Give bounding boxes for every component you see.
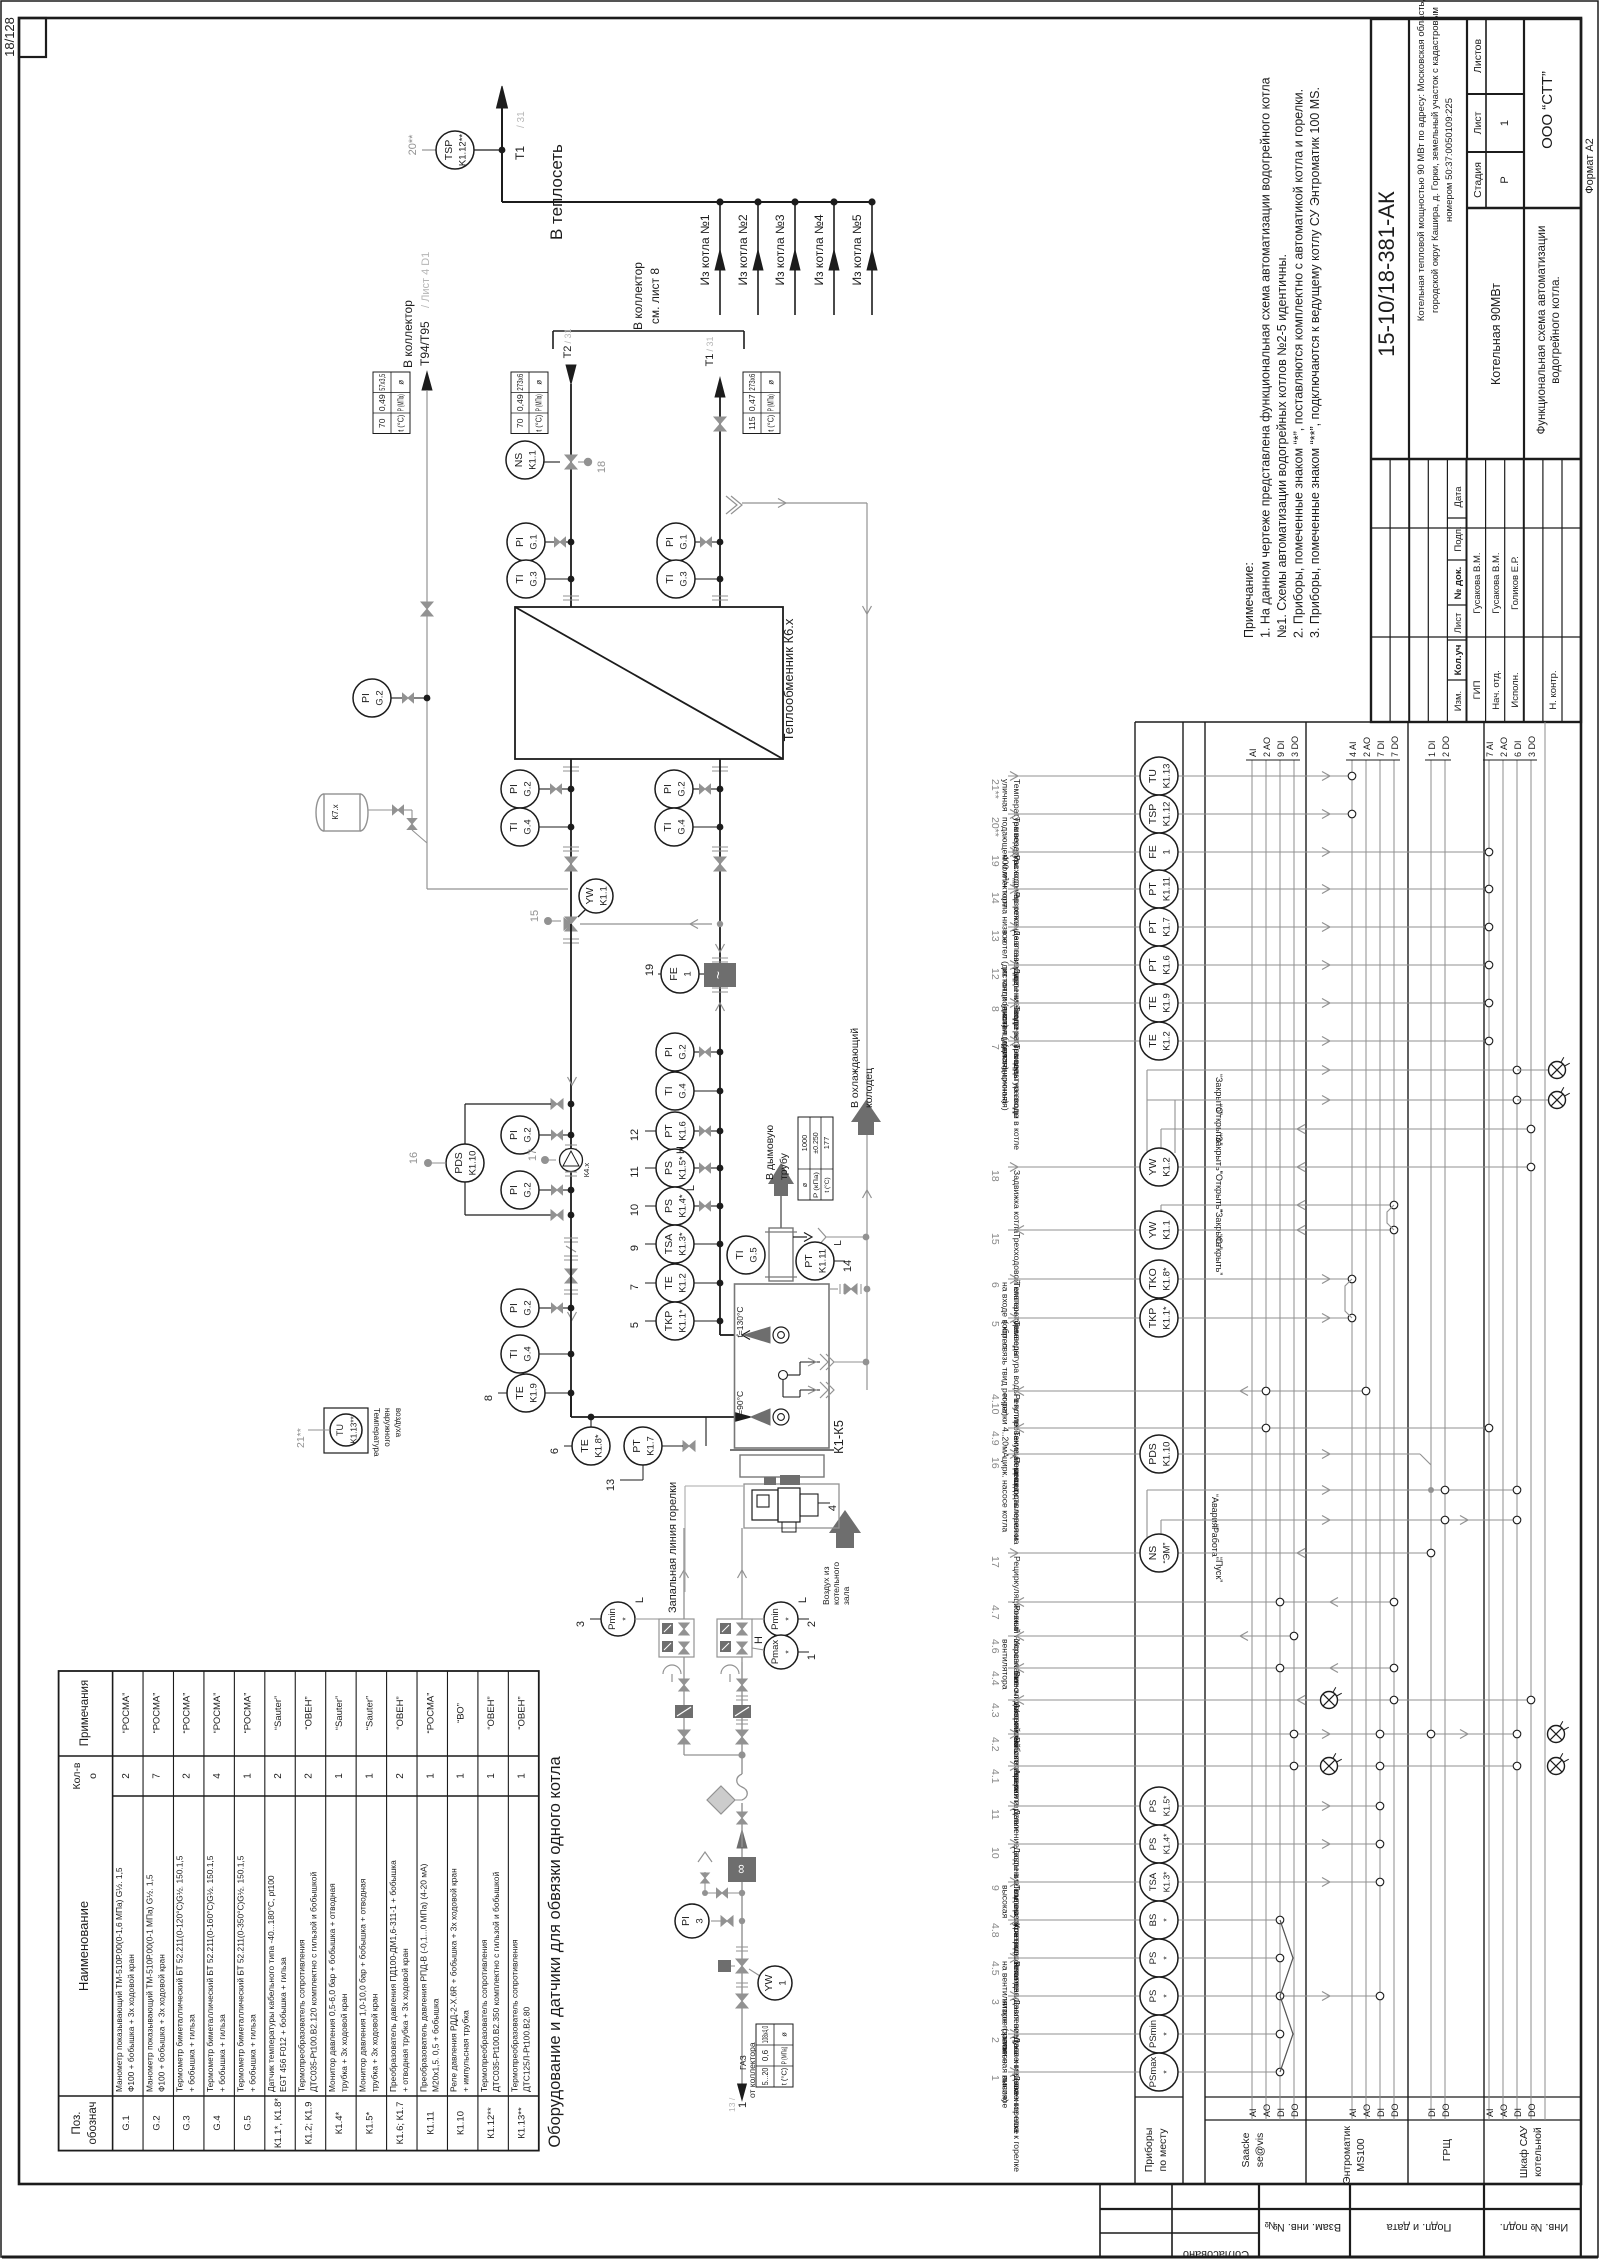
- svg-text:3. Приборы, помеченные знаком: 3. Приборы, помеченные знаком “**”, подк…: [1308, 87, 1322, 638]
- svg-text:горелки 4..20мА: горелки 4..20мА: [1001, 1394, 1011, 1458]
- svg-text:∞: ∞: [733, 1864, 748, 1873]
- svg-text:PT: PT: [1147, 958, 1159, 972]
- svg-text:Температура: Температура: [372, 1408, 381, 1457]
- svg-text:“ЭМ”: “ЭМ”: [1162, 1542, 1173, 1563]
- valve on T1 pipe: [714, 417, 726, 431]
- svg-text:Т2: Т2: [562, 346, 574, 359]
- svg-text:ДТС125Л-Рt100.В2.80: ДТС125Л-Рt100.В2.80: [522, 2006, 532, 2092]
- svg-text:t (°C): t (°C): [780, 2067, 789, 2085]
- svg-text:K1.1*: K1.1*: [678, 1309, 689, 1333]
- svg-text:AI: AI: [1248, 2108, 1258, 2117]
- svg-text:TE: TE: [514, 1386, 526, 1399]
- burner scope boundary: [685, 1486, 743, 1592]
- band signal 21**: [989, 757, 1356, 865]
- title block outer: [1371, 19, 1581, 722]
- sensor TU K1.13** outdoor temperature: [295, 1408, 403, 1457]
- band structure lines: [1135, 722, 1581, 2184]
- svg-text:вентилятора: вентилятора: [1001, 1639, 1011, 1690]
- svg-text:K1.13: K1.13: [1162, 764, 1173, 789]
- svg-text:Взам. инв. №: Взам. инв. №: [1273, 2221, 1341, 2233]
- svg-text:L: L: [634, 1597, 646, 1603]
- instrument PS K1.4* on boiler outlet: [629, 1187, 723, 1225]
- band signal 8: [989, 984, 1493, 1118]
- svg-text:ø: ø: [780, 2032, 789, 2037]
- svg-text:2: 2: [989, 2037, 1001, 2043]
- svg-text:К1.11: К1.11: [425, 2111, 436, 2134]
- boiler outlet pipe: [720, 1331, 750, 1340]
- svg-text:К1.1*, К1.8*: К1.1*, К1.8*: [273, 2098, 284, 2148]
- svg-text:10: 10: [629, 1204, 641, 1216]
- svg-text:K1.11: K1.11: [818, 1249, 829, 1273]
- svg-text:9 DI: 9 DI: [1276, 740, 1286, 757]
- svg-text:“РОСМА”: “РОСМА”: [425, 1693, 436, 1734]
- svg-text:K1.3*: K1.3*: [1162, 1871, 1172, 1892]
- svg-text:Энтроматик: Энтроматик: [1341, 2126, 1353, 2184]
- svg-text:PI: PI: [360, 693, 372, 703]
- svg-text:7: 7: [629, 1284, 641, 1290]
- equipment table caption: [546, 1756, 564, 2148]
- sensor TE K1.8* boiler inlet branch: [549, 1414, 610, 1465]
- svg-text:0,49: 0,49: [377, 394, 387, 411]
- corner box 18/128: [2, 17, 46, 57]
- svg-text:1: 1: [1499, 120, 1511, 126]
- svg-text:ø: ø: [397, 380, 406, 385]
- svg-text:ООО “СТТ”: ООО “СТТ”: [1539, 71, 1556, 149]
- band signal 4.10 burner power control: [989, 1387, 1370, 1498]
- svg-text:TSA: TSA: [663, 1234, 675, 1254]
- svg-text:“Пуск”: “Пуск”: [1214, 1557, 1224, 1582]
- svg-text:“РОСМА”: “РОСМА”: [121, 1693, 132, 1734]
- svg-text:K1.3*: K1.3*: [678, 1232, 689, 1256]
- svg-text:PI: PI: [680, 1916, 692, 1926]
- svg-text:K1.2: K1.2: [1162, 1031, 1173, 1051]
- svg-text:K1.1: K1.1: [1162, 1220, 1173, 1240]
- instrument TKP K1.1* on boiler outlet: [629, 1302, 723, 1340]
- svg-text:PS: PS: [1148, 1990, 1159, 2003]
- secondary return pipe from exchanger: [570, 759, 572, 924]
- svg-text:3: 3: [695, 1918, 706, 1923]
- svg-text:21**: 21**: [989, 779, 1001, 799]
- svg-text:DI: DI: [1376, 2108, 1386, 2117]
- transmitter PT K1.11 flue draft: [793, 1228, 869, 1280]
- svg-text:DO: DO: [1390, 2104, 1400, 2118]
- svg-text:se@vis: se@vis: [1254, 2133, 1266, 2168]
- gauge PI G.2 on makeup line: [353, 679, 430, 717]
- svg-text:К1.2; К1.9: К1.2; К1.9: [303, 2102, 314, 2145]
- svg-text:TU: TU: [335, 1424, 345, 1436]
- svg-text:1000: 1000: [800, 1135, 809, 1152]
- svg-text:TSP: TSP: [1147, 804, 1159, 824]
- svg-text:20**: 20**: [407, 134, 419, 156]
- flanges at exchanger ports: [563, 596, 728, 771]
- svg-text:+ импульсная трубка: + импульсная трубка: [461, 2010, 471, 2092]
- makeup line to collector T94/T95: [401, 252, 568, 889]
- svg-text:/ Лист 4 D1: / Лист 4 D1: [420, 252, 432, 308]
- svg-text:1: 1: [425, 1773, 436, 1779]
- svg-text:2: 2: [121, 1773, 132, 1779]
- main collector line: [502, 201, 873, 203]
- format A2 note: [1584, 138, 1596, 194]
- svg-text:Поз.: Поз.: [71, 2112, 83, 2135]
- svg-text:11: 11: [989, 1809, 1001, 1820]
- svg-text:Стадия: Стадия: [1472, 162, 1484, 198]
- svg-text:3 DO: 3 DO: [1290, 736, 1300, 757]
- svg-text:10: 10: [989, 1847, 1001, 1859]
- svg-text:L: L: [685, 1185, 697, 1191]
- svg-text:Кол.уч: Кол.уч: [1453, 645, 1464, 676]
- svg-text:Термопреобразователь сопротивл: Термопреобразователь сопротивления: [479, 1939, 489, 2092]
- svg-text:Р: Р: [1499, 176, 1511, 183]
- svg-text:2. Приборы, помеченные знаком: 2. Приборы, помеченные знаком “*”, поста…: [1292, 89, 1306, 638]
- svg-text:18: 18: [989, 1170, 1001, 1182]
- svg-text:G.2: G.2: [523, 781, 534, 796]
- svg-text:G.2: G.2: [677, 781, 688, 796]
- band signal 19: [989, 833, 1493, 928]
- svg-text:Реле давления РДД-2-Х.6R + боб: Реле давления РДД-2-Х.6R + бобышка + 3х …: [449, 1868, 459, 2092]
- svg-text:5: 5: [989, 1321, 1001, 1327]
- svg-text:В коллектор: В коллектор: [631, 262, 645, 330]
- svg-text:TU: TU: [1147, 769, 1159, 783]
- band signal 2: [989, 2015, 1284, 2134]
- svg-text:В дымовую: В дымовую: [764, 1125, 776, 1180]
- burner mount dark parts: [764, 1475, 800, 1485]
- svg-text:K1.9: K1.9: [529, 1383, 540, 1403]
- svg-text:Термопреобразователь сопротивл: Термопреобразователь сопротивления: [510, 1939, 520, 2092]
- svg-text:K1.10: K1.10: [468, 1151, 479, 1176]
- svg-text:1: 1: [1162, 849, 1173, 854]
- svg-text:“ВО”: “ВО”: [456, 1703, 467, 1723]
- svg-text:TKP: TKP: [1147, 1308, 1159, 1328]
- svg-text:TE: TE: [663, 1276, 675, 1289]
- pilot double block valves: [659, 1560, 694, 1662]
- svg-text:TE: TE: [579, 1439, 591, 1452]
- svg-text:K1.7: K1.7: [646, 1436, 657, 1456]
- svg-text:“ОВЕН”: “ОВЕН”: [303, 1696, 314, 1729]
- svg-text:“ОВЕН”: “ОВЕН”: [395, 1696, 406, 1729]
- svg-text:K1.10: K1.10: [1162, 1442, 1173, 1467]
- svg-text:TI: TI: [514, 574, 526, 583]
- svg-text:K1.1*: K1.1*: [1162, 1306, 1173, 1330]
- svg-text:0,49: 0,49: [515, 394, 525, 411]
- svg-text:PT: PT: [1147, 882, 1159, 896]
- svg-text:G.3: G.3: [182, 2115, 193, 2130]
- svg-text:Ф100 + бобышка + 3х ходовой кр: Ф100 + бобышка + 3х ходовой кран: [156, 1954, 166, 2092]
- svg-text:Манометр показывающий ТМ-510Р.: Манометр показывающий ТМ-510Р.00(0-1,6 М…: [114, 1867, 124, 2092]
- svg-text:PSmax: PSmax: [1148, 2056, 1159, 2087]
- sensor TSP K1.12** on heat network: [407, 131, 505, 169]
- band signal 4.9 burner current power: [989, 1424, 1493, 1541]
- svg-text:YW: YW: [763, 1974, 775, 1991]
- svg-text:G.1: G.1: [121, 2115, 132, 2130]
- thermometer TI G.4 boiler inlet: [501, 1335, 574, 1373]
- svg-text:/ 31: / 31: [516, 111, 527, 128]
- boiler outlet internal safety t=130C: [735, 1306, 789, 1343]
- svg-text:4.6: 4.6: [989, 1639, 1001, 1654]
- gas main block section: [721, 1662, 751, 1755]
- T1 safety relief to cooling well: [726, 496, 867, 514]
- svg-text:Наименование: Наименование: [76, 1901, 91, 1991]
- svg-text:4.5: 4.5: [989, 1961, 1001, 1976]
- band signal 4.8: [989, 1901, 1284, 1998]
- band signal 4.3: [989, 1687, 1535, 1807]
- band signal 1: [989, 2053, 1284, 2172]
- svg-text:L: L: [833, 1240, 844, 1246]
- svg-text:К1.13**: К1.13**: [517, 2107, 528, 2139]
- svg-text:13: 13: [605, 1479, 617, 1491]
- svg-text:2 DO: 2 DO: [1441, 736, 1451, 757]
- svg-text:Исполн.: Исполн.: [1510, 672, 1521, 707]
- svg-text:7: 7: [151, 1773, 162, 1779]
- svg-text:Давление газа к горелке: Давление газа к горелке: [1012, 2075, 1022, 2172]
- svg-text:AO: AO: [1362, 2104, 1372, 2117]
- boiler drain valve to cooling well: [829, 1284, 870, 1294]
- burner unit: [744, 1484, 839, 1532]
- band row label Saacke se@vis: [1240, 2132, 1266, 2167]
- svg-text:DO: DO: [1290, 2104, 1300, 2118]
- svg-text:4: 4: [212, 1773, 223, 1779]
- svg-text:G.4: G.4: [523, 1346, 534, 1361]
- svg-text:AI: AI: [1348, 2108, 1358, 2117]
- svg-text:Т1: Т1: [513, 146, 527, 160]
- boiler safety valves discharge: [779, 1354, 870, 1398]
- svg-text:PT: PT: [1147, 920, 1159, 934]
- svg-text:“Работа”: “Работа”: [1210, 1524, 1220, 1560]
- svg-text:Перепад давления на: Перепад давления на: [1012, 1457, 1022, 1545]
- svg-text:К1.10: К1.10: [456, 2111, 467, 2135]
- svg-text:G.4: G.4: [677, 819, 688, 834]
- svg-text:уличная: уличная: [1001, 779, 1011, 812]
- svg-text:18: 18: [596, 461, 608, 473]
- svg-text:Термометр биметаллический БТ 5: Термометр биметаллический БТ 52.211(0-35…: [236, 1855, 246, 2092]
- svg-text:7 DO: 7 DO: [1390, 736, 1400, 757]
- svg-text:Воздух из: Воздух из: [821, 1566, 831, 1605]
- svg-text:“РОСМА”: “РОСМА”: [182, 1693, 193, 1734]
- svg-text:Изм.: Изм.: [1453, 691, 1464, 711]
- svg-text:В охлаждающий: В охлаждающий: [849, 1028, 861, 1108]
- svg-text:трубка + 3х ходовой кран: трубка + 3х ходовой кран: [369, 1993, 379, 2092]
- svg-text:Монитор давления 0,5-6,0 бар +: Монитор давления 0,5-6,0 бар + бобышка +…: [327, 1883, 337, 2092]
- svg-text:4.2: 4.2: [989, 1737, 1001, 1752]
- svg-text:0,6: 0,6: [761, 2049, 770, 2061]
- svg-text:MS100: MS100: [1355, 2138, 1367, 2171]
- svg-text:ø: ø: [767, 380, 776, 385]
- svg-text:0,47: 0,47: [747, 394, 757, 411]
- svg-text:AI: AI: [1485, 2108, 1495, 2117]
- svg-text:+ бобышка + гильза: + бобышка + гильза: [187, 2014, 197, 2092]
- svg-text:городской округ Кашира, д. Гор: городской округ Кашира, д. Горки, земель…: [1430, 7, 1441, 313]
- equipment table: [59, 1671, 539, 2151]
- cooling well collector gray line: [849, 503, 881, 1390]
- svg-text:1: 1: [334, 1773, 345, 1779]
- svg-text:К4.х: К4.х: [582, 1163, 591, 1178]
- band signal 4.1: [989, 1753, 1569, 1831]
- gauge PI 3 on gas line: [675, 1904, 745, 1938]
- svg-text:PT: PT: [803, 1254, 815, 1268]
- svg-text:Розжиг: Розжиг: [1012, 1605, 1022, 1633]
- svg-text:“Sauter”: “Sauter”: [273, 1696, 284, 1730]
- svg-text:PI: PI: [508, 1303, 520, 1313]
- pressure switch Pmin* pilot: [575, 1597, 659, 1636]
- pilot line branch point: [684, 1662, 746, 1759]
- svg-text:+ отводная трубка + 3х ходовой: + отводная трубка + 3х ходовой кран: [400, 1948, 410, 2092]
- svg-text:7: 7: [989, 1044, 1001, 1050]
- title block address box: [1416, 0, 1467, 459]
- pilot line block section: [663, 1665, 693, 1744]
- svg-text:15: 15: [989, 1233, 1001, 1245]
- svg-text:AO: AO: [1262, 2104, 1272, 2117]
- pipe spec table T2 273x6: [511, 372, 548, 434]
- svg-text:19: 19: [644, 964, 656, 976]
- svg-text:TSP: TSP: [443, 140, 455, 160]
- svg-text:4 AI: 4 AI: [1348, 741, 1358, 757]
- svg-text:K1.1: K1.1: [528, 450, 539, 470]
- svg-text:6: 6: [989, 1282, 1001, 1288]
- svg-text:3 DO: 3 DO: [1527, 736, 1537, 757]
- svg-text:обознач: обознач: [87, 2101, 99, 2144]
- svg-text:“ОВЕН”: “ОВЕН”: [486, 1696, 497, 1729]
- boiler K1-K5 body: [730, 1284, 846, 1477]
- svg-text:PS: PS: [663, 1161, 675, 1175]
- main double block valves: [717, 1560, 752, 1662]
- title block object name: [1489, 283, 1503, 385]
- gauge PI G.2 boiler inlet: [501, 1289, 574, 1327]
- gauge PI G.2 pump discharge: [501, 1171, 574, 1209]
- svg-text:№1. Схемы автоматизации водогр: №1. Схемы автоматизации водогрейных котл…: [1275, 254, 1289, 638]
- svg-text:G.2: G.2: [523, 1182, 534, 1197]
- svg-text:12: 12: [629, 1129, 641, 1141]
- svg-text:K1.2: K1.2: [678, 1273, 689, 1293]
- svg-text:G.3: G.3: [529, 571, 540, 586]
- gauge PI G.1 on T2: [507, 523, 574, 561]
- svg-text:колодец: колодец: [863, 1068, 875, 1108]
- svg-text:/ 31: / 31: [563, 328, 573, 343]
- equipment row 10: [388, 1696, 410, 2144]
- flue duct and chimney: [764, 1125, 797, 1281]
- pressure switches Pmax* Pmin* main: [752, 1597, 818, 1669]
- secondary supply pipe to exchanger: [719, 759, 721, 1335]
- svg-text:7 AI: 7 AI: [1485, 741, 1495, 757]
- svg-text:TI: TI: [664, 574, 676, 583]
- svg-text:ДТС035-Рt100.В2.350 комплектно: ДТС035-Рt100.В2.350 комплектно с гильзой…: [491, 1872, 501, 2092]
- svg-text:TI: TI: [508, 822, 520, 831]
- svg-text:17: 17: [527, 1149, 539, 1161]
- svg-text:ГРЩ: ГРЩ: [1441, 2139, 1453, 2162]
- IO group underlines: [1246, 722, 1545, 2120]
- svg-text:DI: DI: [1513, 2108, 1523, 2117]
- svg-text:4.3: 4.3: [989, 1703, 1001, 1718]
- svg-text:K1.8*: K1.8*: [1162, 1267, 1173, 1291]
- svg-text:высокая: высокая: [1001, 1885, 1011, 1919]
- svg-text:15: 15: [529, 910, 541, 922]
- svg-text:K1.5*: K1.5*: [1162, 1795, 1172, 1816]
- svg-text:Pmin: Pmin: [607, 1608, 618, 1630]
- svg-text:12: 12: [989, 968, 1001, 980]
- svg-text:Гусакова В.М.: Гусакова В.М.: [1491, 552, 1502, 613]
- gas switch jumper diagonals: [1280, 1920, 1293, 2072]
- svg-text:Термометр биметаллический БТ 5: Термометр биметаллический БТ 52.211(0-16…: [205, 1855, 215, 2092]
- svg-text:PI: PI: [662, 784, 674, 794]
- svg-text:t (°C): t (°C): [767, 414, 776, 431]
- svg-text:Подп.: Подп.: [1453, 526, 1464, 551]
- valve YW K1.2 wires Zakryto/Otkryto/Zakryt/Otkryt: [1147, 1066, 1535, 1174]
- svg-text:1: 1: [486, 1773, 497, 1779]
- svg-text:трубу: трубу: [778, 1152, 790, 1180]
- svg-text:воздуха: воздуха: [394, 1408, 403, 1438]
- isolation valves below exchanger: [563, 847, 728, 871]
- svg-text:+ бобышка + гильза: + бобышка + гильза: [248, 2014, 258, 2092]
- collector bracket sheet 8: [553, 262, 744, 349]
- svg-text:В коллектор: В коллектор: [401, 300, 415, 368]
- svg-text:PS: PS: [663, 1199, 675, 1213]
- svg-text:Монитор давления 1,0-10,0 бар: Монитор давления 1,0-10,0 бар + бобышка …: [357, 1879, 367, 2092]
- svg-text:№ док.: № док.: [1453, 567, 1464, 599]
- svg-text:низкое: низкое: [1001, 2037, 1011, 2064]
- band signal 17 pump NS EM: [989, 1534, 1435, 1683]
- thermometer TI G.3 on T1: [657, 560, 723, 598]
- gas vent branch: [698, 1852, 745, 1898]
- title block signature grid: [1371, 459, 1581, 722]
- svg-text:PI: PI: [508, 1130, 520, 1140]
- svg-text:t=130°С: t=130°С: [735, 1306, 745, 1337]
- thermometer TI G.4 under exchanger right: [655, 808, 723, 846]
- valve YW K1.1 wire Zakryt: [1161, 1201, 1398, 1250]
- band signal 15 valve YW K1.1: [989, 1211, 1398, 1339]
- flow meter FE 1: [644, 944, 736, 1011]
- svg-text:K1.6: K1.6: [678, 1121, 689, 1141]
- svg-text:Оборудование и датчики для обв: Оборудование и датчики для обвязки одног…: [546, 1756, 564, 2148]
- svg-text:18/128: 18/128: [2, 17, 17, 57]
- svg-text:Из котла №4: Из котла №4: [812, 214, 826, 285]
- svg-text:Шкаф САУ: Шкаф САУ: [1518, 2125, 1530, 2178]
- svg-text:PSmin: PSmin: [1148, 2020, 1159, 2048]
- svg-text:ДТС035-Рt100.В2.120 комплектно: ДТС035-Рt100.В2.120 комплектно с гильзой…: [308, 1872, 318, 2092]
- instrument PI G.2 on boiler outlet: [656, 1033, 723, 1071]
- band row label Pribory po mestu: [1143, 2128, 1169, 2173]
- svg-text:K1.4*: K1.4*: [1162, 1833, 1172, 1854]
- svg-text:TI: TI: [662, 822, 674, 831]
- svg-text:К1.6; К1.7: К1.6; К1.7: [395, 2102, 406, 2145]
- gas inlet from collector: [727, 2010, 757, 2112]
- svg-text:Из котла №3: Из котла №3: [773, 214, 787, 285]
- svg-text:К1.5*: К1.5*: [364, 2111, 375, 2134]
- svg-text:TE: TE: [1147, 996, 1159, 1009]
- svg-text:котельной: котельной: [1532, 2127, 1544, 2177]
- svg-text:K1.13**: K1.13**: [350, 1416, 359, 1443]
- svg-text:273х6: 273х6: [747, 374, 757, 391]
- svg-text:G.4: G.4: [678, 1083, 689, 1098]
- gas main line lower section: [736, 1893, 748, 2010]
- svg-text:PI: PI: [508, 784, 520, 794]
- svg-text:2: 2: [303, 1773, 314, 1779]
- svg-text:L: L: [797, 1597, 809, 1603]
- svg-text:“РОСМА”: “РОСМА”: [212, 1693, 223, 1734]
- band signal 3: [989, 1977, 1384, 2102]
- svg-text:Котельная тепловой мощностью 9: Котельная тепловой мощностью 90 МВт по а…: [1416, 0, 1427, 321]
- band signal 5 TKP K1.1*: [989, 1299, 1356, 1427]
- svg-text:11: 11: [629, 1166, 641, 1177]
- svg-text:20**: 20**: [989, 817, 1001, 837]
- svg-text:1: 1: [683, 971, 694, 976]
- svg-text:177: 177: [822, 1137, 831, 1150]
- svg-text:FE: FE: [668, 967, 680, 980]
- svg-text:G.2: G.2: [523, 1300, 534, 1315]
- band signal 16 PDS K1.10: [989, 1435, 1434, 1545]
- equipment row 14: [510, 1696, 532, 2138]
- svg-text:TKP: TKP: [663, 1311, 675, 1331]
- svg-text:PDS: PDS: [453, 1152, 465, 1174]
- svg-text:Термометр биметаллический БТ 5: Термометр биметаллический БТ 52.211(0-12…: [175, 1855, 185, 2092]
- pump NS EM wires Avariya/Rabota/Pusk: [1147, 1486, 1521, 1560]
